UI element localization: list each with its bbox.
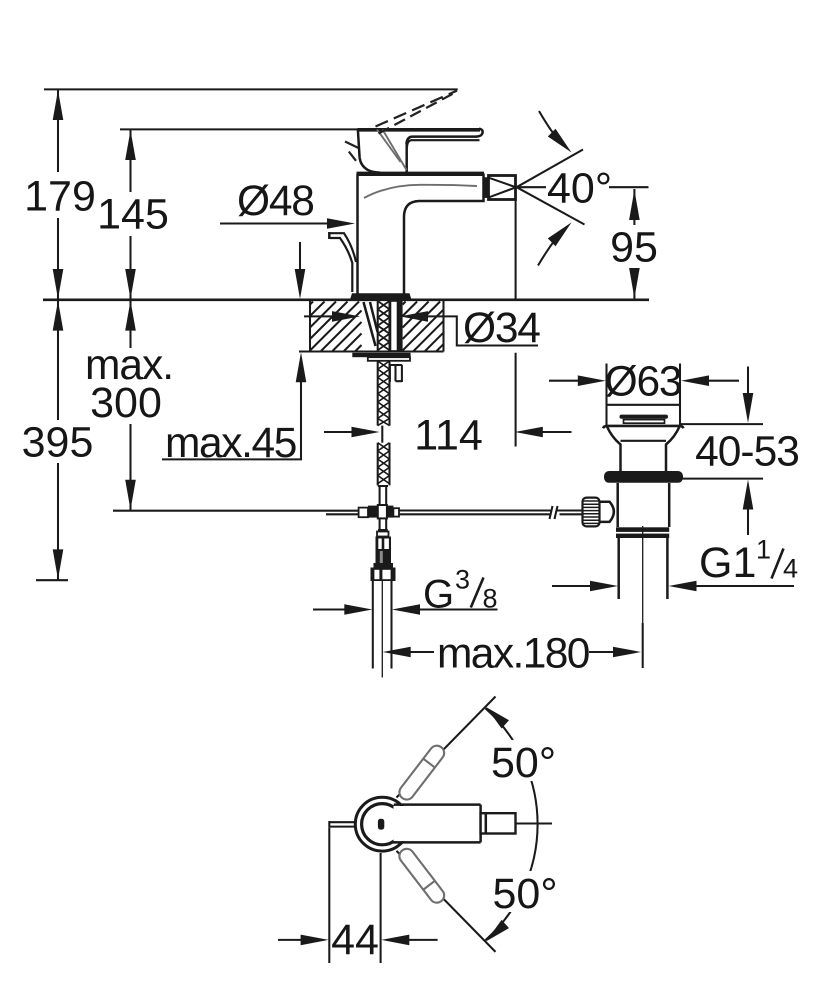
waste nut band upper (616, 527, 669, 532)
dim G1 1/4 fraction slash (772, 549, 784, 579)
svg-text:Ø34: Ø34 (463, 305, 540, 352)
faucet spout inner curve (364, 185, 477, 198)
aerator extension line down (114 right reference) (515, 200, 517, 447)
dim 40-53 lower arrow line (747, 506, 749, 535)
dim G3/8 right arrow (392, 604, 420, 615)
dim 179 top reference line (44, 88, 458, 90)
counter slab right edge (442, 301, 444, 352)
handle inner diagonal 2 (383, 130, 407, 171)
pull rod reference line left (113, 510, 359, 512)
ghost handle lower (396, 846, 447, 906)
dim max.180 left arrow (383, 647, 411, 658)
top view pull rod stub (329, 821, 355, 828)
dim max.45 arrow up (296, 352, 307, 382)
50 degree swing arc (486, 708, 538, 940)
svg-text:max.180: max.180 (437, 631, 589, 678)
svg-text:40°: 40° (547, 165, 612, 213)
svg-text:44: 44 (331, 916, 379, 964)
dim Ø34 left arrow (332, 311, 360, 322)
dim 395 bottom reference line (36, 579, 68, 581)
svg-text:G: G (423, 573, 454, 617)
svg-text:145: 145 (97, 191, 169, 239)
dim 395 vertical line (57, 300, 59, 580)
supply pipe centerline (381, 581, 383, 678)
mounting stud channel (391, 301, 398, 351)
counter slab bottom line (299, 350, 444, 352)
dim max.180 right extension (642, 623, 644, 668)
braided hose segment below counter (378, 361, 390, 426)
svg-text:4: 4 (783, 554, 798, 584)
pop-up rod hook left cap (328, 232, 331, 239)
dim Ø63 left tail (549, 380, 579, 382)
valve stripe highlight (380, 551, 383, 563)
braided hose edges in hole (378, 301, 390, 352)
waste flange side extension lines (607, 364, 681, 426)
top view cartridge slot (378, 819, 384, 830)
dim 145 reference line (120, 128, 360, 130)
waste flange bottom lip (603, 426, 684, 428)
mounting nut bracket on stud (390, 365, 402, 382)
countertop surface line (43, 298, 649, 301)
dim 145 arrow down (125, 269, 136, 299)
valve window left (378, 539, 381, 550)
top view handle bar fill (394, 806, 481, 841)
waste funnel seam line (621, 440, 667, 442)
svg-text:50°: 50° (493, 870, 558, 918)
dim G3/8 left arrow (344, 604, 372, 615)
dim Ø63 right tail (708, 380, 739, 382)
dim Ø34 right leader with corner (428, 316, 538, 345)
dashed raised handle lower edge (379, 92, 458, 134)
handle arm right edge (405, 143, 408, 173)
valve collar (377, 532, 389, 537)
dim 44 right arrow (381, 935, 409, 946)
faucet body top thick edge (357, 172, 485, 176)
dim 40-53 upper reference line (681, 423, 763, 425)
50 degree lower radial line (397, 851, 496, 952)
dim 179 arrow up (53, 90, 64, 120)
waste plug stem ring (624, 420, 665, 424)
dim 44 right tail (408, 939, 437, 941)
G3/8 supply pipe (373, 581, 392, 669)
dim 179 arrow down (53, 269, 64, 299)
counter slab left edge (309, 301, 311, 352)
40 degree apex leader (517, 186, 546, 188)
40 degree upper ray (517, 150, 583, 188)
50 degree lower arc arrowhead (486, 920, 509, 942)
handle grip top thick edge (358, 128, 481, 132)
dim 40-53 arrow up (743, 480, 754, 510)
valve window right (384, 539, 389, 550)
locknut under washer (368, 357, 410, 361)
hex nut window left (374, 570, 379, 579)
dim Ø34 left leader (304, 315, 334, 317)
handle grip underside second line (407, 140, 480, 148)
dim max.45 lower leader (162, 381, 301, 459)
waste body below gasket (618, 483, 670, 527)
tee fitting left wing (368, 506, 378, 518)
waste funnel right side (666, 427, 680, 472)
dim G3/8 right tail (419, 608, 498, 610)
dim 114 right arrow (515, 427, 543, 438)
40 degree lower arc arrowhead (548, 222, 572, 246)
dim G1 1/4 right arrow (669, 581, 697, 592)
svg-text:3: 3 (455, 565, 470, 595)
valve striped section (376, 551, 392, 563)
svg-text:95: 95 (610, 224, 658, 272)
dim max.45 upper arrow line (points down to countertop) (299, 242, 301, 270)
waste tailpiece (619, 538, 668, 599)
dim 50 lower label background (487, 871, 565, 912)
faucet base plate (350, 293, 411, 299)
dim G1 1/4 left arrow (590, 581, 618, 592)
svg-text:40-53: 40-53 (695, 429, 799, 476)
dim 179 vertical line (57, 89, 59, 299)
40 degree upper arc arrow tail (539, 111, 557, 138)
pull rod break marks (550, 506, 558, 519)
waste funnel left side (607, 427, 621, 472)
handle grip right end (476, 129, 483, 137)
dim G3/8 fraction slash (471, 578, 484, 608)
dim max.180 left line (410, 651, 434, 653)
svg-text:179: 179 (24, 173, 96, 221)
tee fitting left end piece (359, 508, 368, 518)
top view handle bar bottom edge (393, 841, 481, 844)
dim max.300 arrow up (125, 301, 136, 331)
dim 395 arrow down (53, 549, 64, 579)
tee fitting center block (378, 505, 387, 518)
top view handle bar right edge (479, 805, 482, 843)
dim 44 left tail (278, 939, 302, 941)
dim max.180 right arrow (613, 647, 641, 658)
svg-text:300: 300 (90, 379, 162, 427)
dim 145 vertical line (129, 129, 131, 299)
svg-text:max.45: max.45 (165, 420, 296, 467)
dim Ø63 left arrow (578, 375, 606, 386)
handle wedge left edge (358, 129, 380, 173)
waste knob stem (600, 502, 614, 522)
aerator joint dark band (484, 177, 489, 198)
dim 114 left tail (324, 431, 353, 433)
dim Ø34 right arrow (400, 311, 428, 322)
dim max.180 right line (589, 651, 614, 653)
svg-text:Ø48: Ø48 (237, 178, 314, 225)
40 degree lower arc arrow tail (538, 238, 557, 266)
hose break gap centerline (381, 426, 383, 443)
dim G3/8 left tail (313, 608, 345, 610)
braided hose lower edges (378, 443, 390, 486)
hex nut window right (382, 570, 390, 579)
top view escutcheon inner circle (362, 804, 403, 845)
mounting stud dark band (398, 301, 403, 351)
dim 95 arrow down (629, 268, 640, 298)
pull rod segment to drain knob (557, 511, 584, 515)
svg-text:1: 1 (756, 535, 771, 565)
braided hose segment in counter hole (378, 301, 390, 350)
braided hose lower segment (378, 443, 390, 484)
waste flange top edge (607, 404, 681, 406)
supply hex nut (371, 568, 396, 582)
top view escutcheon outer circle (355, 797, 409, 851)
waste centerline (642, 526, 644, 667)
40 degree upper arc arrowhead (548, 129, 572, 153)
dim max.45 arrow down (295, 269, 306, 299)
dim 145 arrow up (125, 130, 136, 160)
dim 50 upper label background (486, 740, 564, 781)
dim 395 arrow up (53, 301, 64, 331)
dim 95 arrow up (629, 190, 640, 220)
valve lower black band (374, 563, 394, 568)
ghost handle upper (396, 743, 447, 803)
dim 44 left extension line (328, 828, 330, 963)
washer bar under slab (352, 353, 410, 357)
waste plug cap (620, 415, 669, 419)
top view handle bar top edge (394, 803, 481, 806)
svg-text:395: 395 (22, 419, 94, 467)
dim Ø48 arrow (327, 218, 355, 229)
svg-text:G1: G1 (699, 539, 756, 587)
dim max.300 vertical line (129, 300, 131, 511)
dim 95 vertical line (633, 189, 635, 299)
dashed raised handle butt outline (345, 142, 359, 161)
dim G1 1/4 left tail (552, 585, 591, 587)
top view handle tip (481, 813, 516, 833)
dim Ø48 leader line (220, 222, 330, 224)
dim 44 right extension line (380, 853, 382, 963)
dim max.300 arrow down (125, 480, 136, 510)
hose end stem above tee (378, 486, 388, 504)
pull rod right segment (399, 511, 551, 515)
counter slab right hatched block (403, 302, 444, 352)
50 degree upper arc arrowhead (486, 707, 509, 729)
pull rod left lower edge (326, 513, 359, 515)
valve windowed band (376, 537, 392, 552)
top view centerline right (516, 822, 553, 824)
svg-text:Ø63: Ø63 (605, 359, 682, 406)
faucet body outline (358, 174, 484, 294)
dim 114 right tail (542, 431, 572, 433)
aerator spray cone (489, 178, 516, 198)
svg-text:114: 114 (414, 412, 483, 460)
flexible hose bend lines in hole (364, 302, 378, 346)
dim 95 top reference line (609, 186, 649, 188)
waste knurled knob (583, 498, 600, 527)
aerator housing (489, 176, 516, 200)
dashed raised handle upper edge (376, 91, 458, 127)
svg-text:50°: 50° (491, 739, 556, 787)
waste nut band lower (616, 534, 669, 538)
braided hose edges below counter (378, 361, 390, 426)
counter slab left hatched block (310, 302, 362, 352)
handle inner diagonal 1 (377, 130, 401, 163)
top view handle tip joint line (485, 813, 488, 833)
tee fitting right end piece (393, 508, 399, 516)
dim 40-53 arrow down (743, 393, 754, 423)
dim 40-53 upper arrow line (747, 367, 749, 397)
dim Ø63 right arrow (681, 375, 709, 386)
waste knob knurl ridges (583, 501, 599, 523)
handle grip bottom edge (407, 137, 478, 144)
tee stem below (378, 519, 388, 530)
50 degree upper radial line (397, 697, 496, 798)
tee fitting right wing (387, 506, 394, 518)
dim G1 1/4 right tail (696, 585, 795, 587)
dim 40-53 lower reference line (679, 478, 763, 480)
svg-text:8: 8 (483, 584, 498, 614)
waste rubber gasket (604, 471, 683, 483)
40 degree lower ray (517, 187, 585, 224)
dim 114 left arrow (352, 427, 380, 438)
pop-up rod hook on body (330, 233, 356, 292)
dim 44 left arrow (301, 935, 329, 946)
